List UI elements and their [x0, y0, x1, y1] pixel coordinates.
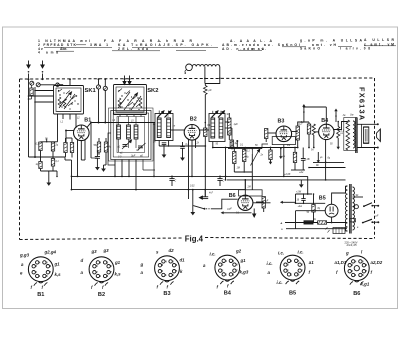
- capacitor: [162, 142, 167, 144]
- ground: [192, 205, 194, 213]
- grid resistor B3: [265, 129, 268, 139]
- resistor: [293, 152, 296, 162]
- valve base B2: [89, 257, 114, 282]
- wire: [212, 111, 214, 114]
- wire: [244, 180, 246, 190]
- svg-text:d1: d1: [180, 258, 186, 263]
- svg-text:μw: μw: [226, 132, 230, 134]
- wire: [244, 189, 246, 191]
- svg-text:2n: 2n: [260, 155, 264, 157]
- grid resistor: [312, 124, 315, 135]
- wire: [308, 193, 312, 195]
- trimmer arrow into SK2: [124, 76, 126, 85]
- wire: [313, 222, 315, 224]
- wire: [40, 84, 55, 86]
- wire: [71, 160, 73, 190]
- IF transformer 1: [155, 114, 173, 141]
- svg-text:g1: g1: [240, 258, 247, 263]
- svg-text:4: 4: [355, 260, 357, 263]
- svg-text:1n: 1n: [153, 142, 156, 144]
- wire: [283, 145, 285, 177]
- wire: [105, 152, 107, 165]
- svg-text:μF: μF: [208, 88, 212, 92]
- svg-text:2/14,45: 2/14,45: [346, 243, 357, 247]
- resistor: [307, 124, 310, 134]
- arrow: [317, 152, 319, 161]
- wire: [345, 186, 347, 193]
- capacitor: [301, 158, 306, 160]
- svg-text:d2: d2: [169, 248, 175, 253]
- wire: [121, 160, 123, 177]
- wire: [313, 161, 344, 163]
- svg-text:8: 8: [172, 275, 174, 277]
- svg-text:g2,g4: g2,g4: [44, 250, 57, 255]
- cathode wire: [325, 140, 327, 174]
- cathode resistor: [39, 142, 42, 151]
- resistor: [230, 140, 233, 148]
- svg-text:8: 8: [107, 276, 109, 278]
- electrolytic: [301, 198, 305, 200]
- wire: [251, 172, 253, 190]
- wire: [204, 137, 206, 177]
- svg-text:1μF: 1μF: [234, 123, 239, 126]
- dark resistor: [304, 221, 313, 224]
- svg-text:s: s: [156, 250, 159, 255]
- wire plate to IFT1: [87, 123, 155, 128]
- bias resistor: [337, 127, 340, 139]
- valve B2: [184, 125, 200, 141]
- capacitor: [180, 146, 185, 148]
- svg-text:g: g: [140, 262, 144, 267]
- svg-text:3μF: 3μF: [131, 155, 136, 158]
- svg-text:6q: 6q: [328, 158, 331, 160]
- wire grid to B2: [171, 129, 185, 131]
- svg-text:Abe.: Abe.: [60, 47, 67, 51]
- IF transformer 2: [209, 114, 225, 142]
- svg-text:1: 1: [100, 276, 102, 278]
- valve base B3: [155, 256, 180, 281]
- junction: [236, 141, 238, 148]
- screen resistor: [97, 142, 100, 152]
- wire: [286, 228, 347, 230]
- ground: [163, 151, 165, 155]
- svg-text:B3: B3: [163, 291, 170, 297]
- svg-text:g,g3: g,g3: [19, 253, 30, 258]
- wire: [357, 147, 378, 149]
- wire plate: [334, 122, 348, 130]
- wire: [135, 189, 137, 191]
- wire: [191, 140, 193, 176]
- switch lever: [193, 206, 204, 209]
- wire loop osc: [108, 133, 115, 165]
- svg-text:50: 50: [45, 139, 48, 141]
- svg-text:-: -: [160, 39, 161, 43]
- wire: [104, 91, 106, 123]
- wire: [57, 124, 59, 142]
- wire: [307, 176, 309, 194]
- resistor: [204, 128, 207, 137]
- svg-text:a: a: [357, 227, 359, 229]
- svg-text:Uw: Uw: [350, 114, 354, 117]
- svg-text:50: 50: [216, 144, 219, 146]
- svg-text:B5: B5: [289, 290, 296, 296]
- svg-text:B6: B6: [353, 291, 360, 297]
- svg-text:+1W: +1W: [296, 191, 302, 194]
- svg-text:8: 8: [46, 276, 48, 278]
- wire: [142, 160, 144, 171]
- svg-text:2M: 2M: [247, 187, 251, 189]
- wire: [205, 67, 220, 86]
- filter wire2: [296, 202, 326, 204]
- supply arrow: [303, 107, 305, 123]
- wire: [64, 157, 66, 160]
- wire: [34, 87, 36, 157]
- bypass resistor 2: [70, 143, 73, 153]
- svg-text:i.c.: i.c.: [267, 261, 273, 266]
- capacitor to ground on bus A: [169, 178, 174, 180]
- svg-text:a: a: [203, 263, 206, 268]
- svg-text:1: 1: [355, 275, 357, 277]
- wire: [158, 111, 160, 114]
- svg-text:8q: 8q: [318, 208, 321, 210]
- band switch SK1 assembly: [54, 86, 84, 115]
- wire: [56, 171, 58, 176]
- aerial arrow: [28, 61, 30, 65]
- svg-text:5n: 5n: [311, 150, 314, 152]
- bus C: [72, 189, 246, 191]
- svg-text:7: 7: [50, 272, 52, 274]
- volume pot: [233, 152, 236, 164]
- filter wire: [296, 193, 313, 195]
- svg-text:a: a: [141, 270, 144, 275]
- svg-text:1M: 1M: [287, 145, 290, 147]
- svg-text:i.c.: i.c.: [298, 250, 304, 255]
- svg-text:μs: μs: [319, 156, 323, 159]
- svg-text:4q: 4q: [109, 146, 112, 149]
- svg-text:g.aP m. A ULLSA: g.aP m. A ULLSA: [300, 38, 363, 42]
- wire grid tap: [66, 130, 74, 132]
- wire: [337, 122, 339, 127]
- arrow: [337, 138, 339, 147]
- wire: [244, 190, 246, 195]
- resistor: [243, 150, 246, 162]
- voltage selector: [333, 228, 345, 234]
- wire: [35, 90, 54, 92]
- svg-text:a1: a1: [309, 260, 314, 265]
- bypass resistor: [64, 143, 67, 153]
- svg-text:μ0: μ0: [136, 150, 140, 152]
- svg-text:k: k: [180, 269, 183, 274]
- svg-text:4: 4: [291, 260, 293, 263]
- wire: [28, 79, 30, 157]
- svg-text:SaKnO: SaKnO: [300, 47, 320, 51]
- svg-text:ZEL. ada: ZEL. ada: [118, 47, 148, 51]
- svg-text:7: 7: [176, 271, 178, 273]
- svg-text:L1: L1: [61, 122, 64, 124]
- wire: [225, 148, 227, 180]
- svg-text:2k: 2k: [196, 143, 200, 145]
- supply rail: [304, 106, 326, 108]
- wire: [292, 131, 298, 133]
- svg-text:f: f: [102, 285, 104, 290]
- box: [239, 190, 263, 196]
- svg-text:B4: B4: [321, 118, 328, 124]
- valve base B4: [215, 255, 240, 280]
- svg-text:μμF: μμF: [227, 207, 233, 210]
- hf choke: [204, 86, 208, 95]
- svg-text:g3: g3: [91, 249, 98, 254]
- svg-text:3: 3: [287, 265, 289, 267]
- wire: [295, 223, 297, 229]
- resistor: [228, 118, 231, 135]
- aerial terminal: [30, 81, 34, 85]
- svg-text:f: f: [31, 285, 33, 290]
- svg-text:C: C: [175, 180, 177, 183]
- output transformer: [344, 118, 357, 151]
- wire: [331, 217, 333, 222]
- svg-text:6: 6: [366, 265, 368, 267]
- wire: [204, 95, 206, 129]
- pot arrow: [251, 151, 259, 166]
- svg-text:B4: B4: [224, 290, 232, 296]
- earth terminal: [36, 83, 40, 87]
- wire: [225, 121, 229, 123]
- svg-text:f: f: [336, 270, 338, 275]
- svg-text:7: 7: [236, 271, 238, 273]
- speaker cone: [377, 129, 381, 142]
- svg-text:8: 8: [233, 274, 235, 276]
- svg-text:a: a: [81, 270, 84, 275]
- wire: [233, 164, 235, 173]
- wire: [294, 148, 296, 153]
- svg-text:g3: g3: [103, 248, 110, 253]
- svg-text:1: 1: [291, 274, 293, 276]
- svg-text:A ULLSR: A ULLSR: [364, 38, 395, 42]
- ground: [182, 154, 184, 158]
- svg-text:+2w: +2w: [299, 172, 304, 174]
- earth arrow: [42, 61, 44, 65]
- wire: [153, 124, 155, 176]
- mains switch 2: [362, 222, 364, 224]
- svg-text:0,1: 0,1: [56, 161, 60, 163]
- supply arrow down: [280, 149, 282, 157]
- wire: [212, 199, 238, 209]
- svg-text:B1: B1: [37, 292, 44, 298]
- valve base B6: [344, 256, 369, 281]
- wire: [285, 222, 318, 224]
- resistor: [39, 162, 42, 169]
- wire: [256, 201, 264, 203]
- svg-text:50: 50: [330, 144, 333, 146]
- wire: [29, 156, 66, 158]
- valve B1: [74, 125, 90, 141]
- svg-text:μF: μF: [375, 214, 379, 217]
- svg-text:7: 7: [110, 272, 112, 274]
- wire: [135, 160, 137, 190]
- wire: [69, 79, 71, 85]
- svg-text:1M: 1M: [237, 167, 240, 170]
- svg-text:B3: B3: [278, 119, 285, 125]
- wire: [35, 101, 54, 103]
- wire: [192, 190, 194, 205]
- valve B5: [325, 204, 338, 217]
- svg-text:6: 6: [176, 265, 178, 267]
- wire: [225, 176, 227, 180]
- wire: [40, 157, 42, 162]
- svg-text:g1: g1: [114, 260, 121, 265]
- capacitor to ground on bus A 2: [217, 178, 222, 180]
- small box: [350, 219, 356, 222]
- svg-text:3WA 1: 3WA 1: [90, 43, 108, 47]
- wire: [308, 122, 310, 124]
- aerial coupling: [30, 88, 33, 96]
- svg-text:1: 1: [165, 275, 167, 277]
- wire: [90, 123, 92, 159]
- wire: [80, 149, 82, 160]
- svg-text:l: l: [361, 250, 363, 255]
- resistor: [51, 159, 54, 167]
- svg-text:B2: B2: [190, 116, 197, 122]
- svg-text:g: g: [345, 251, 349, 256]
- wire: [296, 210, 326, 212]
- svg-text:SK2: SK2: [147, 88, 158, 94]
- valve B3: [276, 126, 292, 142]
- svg-text:v.08: v.08: [356, 46, 370, 50]
- wire: [114, 160, 116, 177]
- svg-text:f: f: [167, 285, 169, 290]
- rules under parts list: [76, 44, 86, 46]
- svg-text:i.c.: i.c.: [278, 251, 284, 256]
- svg-text:50: 50: [255, 145, 258, 147]
- svg-text:S1: S1: [166, 116, 170, 118]
- svg-text:B2: B2: [98, 292, 105, 298]
- ground: [103, 165, 105, 169]
- svg-text:k,g3: k,g3: [240, 270, 249, 275]
- svg-text:6: 6: [236, 265, 238, 267]
- wire: [345, 223, 347, 232]
- filter resistor: [318, 221, 327, 224]
- svg-text:l arr: l arr: [340, 46, 355, 50]
- svg-text:e: e: [20, 271, 23, 276]
- svg-text:4n7: 4n7: [209, 192, 214, 195]
- wire: [212, 142, 214, 148]
- svg-text:6: 6: [302, 265, 304, 267]
- wire plate to IFT2: [200, 129, 209, 131]
- speaker magnet: [363, 127, 368, 143]
- wire: [268, 132, 276, 134]
- svg-text:SK1: SK1: [85, 88, 97, 94]
- svg-text:L4: L4: [113, 119, 116, 122]
- svg-text:f: f: [309, 270, 311, 275]
- svg-text:7: 7: [366, 271, 368, 273]
- AVC line: [213, 147, 298, 149]
- svg-text:+: +: [280, 222, 282, 226]
- svg-text:μs: μs: [282, 155, 286, 158]
- svg-text:*: *: [281, 228, 283, 232]
- wire: [327, 222, 347, 224]
- svg-text:2 FRFEAD STK: 2 FRFEAD STK: [38, 43, 77, 47]
- bus B: [227, 179, 346, 181]
- mains transformer: [345, 186, 347, 231]
- mains switch 1: [353, 196, 364, 198]
- svg-text:1q: 1q: [36, 164, 39, 166]
- wire: [244, 180, 246, 190]
- svg-text:4: 4: [165, 260, 167, 263]
- dial lamp: [186, 64, 193, 71]
- gang terminal 2: [103, 86, 107, 90]
- wire: [119, 115, 121, 117]
- wire: [228, 148, 262, 150]
- wire: [309, 167, 346, 169]
- svg-text:Rk: Rk: [316, 165, 320, 167]
- wire: [98, 152, 100, 154]
- wire: [188, 140, 190, 200]
- svg-text:g1: g1: [54, 262, 61, 267]
- anode resistor: [296, 126, 299, 140]
- svg-text:1: 1: [226, 274, 228, 276]
- svg-text:3: 3: [352, 265, 354, 267]
- svg-text:f: f: [217, 285, 219, 290]
- capacitor: [95, 156, 100, 158]
- svg-text:a1: a1: [118, 147, 121, 149]
- svg-text:Ro: Ro: [313, 218, 317, 221]
- svg-text:4: 4: [100, 261, 102, 264]
- trimmer arrow into SK2 b: [129, 76, 131, 85]
- svg-text:4: 4: [226, 260, 228, 263]
- wire: [29, 95, 54, 97]
- svg-text:47: 47: [173, 125, 176, 128]
- svg-text:3: 3: [162, 265, 164, 267]
- capacitor: [202, 196, 208, 198]
- svg-text:4μ: 4μ: [246, 156, 249, 159]
- svg-text:i.c.: i.c.: [277, 280, 283, 285]
- wire: [128, 160, 130, 177]
- valve B6: [238, 195, 253, 210]
- input terminal: [56, 83, 59, 86]
- svg-text:16: 16: [297, 199, 300, 201]
- svg-text:k,s: k,s: [115, 272, 122, 277]
- svg-text:L2: L2: [77, 118, 80, 120]
- svg-text:6: 6: [50, 266, 52, 268]
- svg-text:3: 3: [96, 266, 98, 268]
- resistor: [312, 205, 315, 213]
- svg-text:Jw: Jw: [343, 114, 346, 117]
- ground on bus B: [300, 180, 302, 185]
- wire: [75, 124, 77, 128]
- wire: [40, 169, 42, 172]
- wire loop: [109, 108, 154, 161]
- wire: [66, 137, 73, 139]
- svg-text:4: 4: [38, 50, 40, 54]
- svg-text:amt. vH: amt. vH: [312, 43, 337, 47]
- wire: [295, 194, 297, 203]
- box: [272, 137, 295, 145]
- wire: [262, 144, 268, 149]
- diode arrow: [253, 209, 255, 215]
- dial resistor: [192, 65, 219, 67]
- svg-text:+2,08: +2,08: [284, 173, 291, 176]
- svg-text:50: 50: [307, 212, 310, 214]
- valve base B5: [280, 255, 305, 280]
- valve base B1: [28, 257, 53, 282]
- svg-text:8: 8: [298, 274, 300, 276]
- wire: [77, 152, 79, 176]
- svg-text:1: 1: [39, 276, 41, 278]
- svg-text:0,2: 0,2: [299, 124, 303, 126]
- svg-text:6: 6: [110, 266, 112, 268]
- svg-text:0,1: 0,1: [247, 151, 251, 153]
- bus A: [72, 175, 308, 177]
